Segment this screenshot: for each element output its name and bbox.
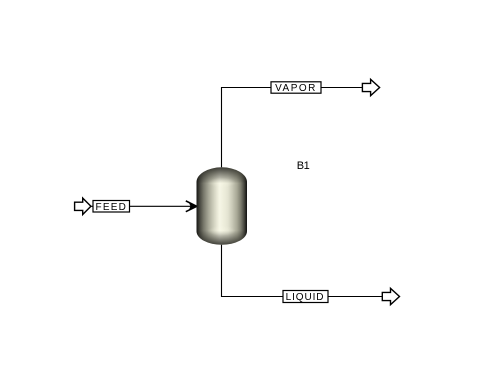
wire vapor line bbox=[222, 88, 272, 169]
stream label FEED bbox=[93, 201, 130, 214]
svg-text:B1: B1 bbox=[297, 160, 310, 172]
wire liquid line 2 bbox=[328, 296, 382, 298]
vapor outlet arrow bbox=[362, 79, 379, 95]
stream label VAPOR bbox=[271, 82, 321, 94]
wire liquid line bbox=[222, 244, 284, 297]
svg-text:VAPOR: VAPOR bbox=[275, 83, 317, 94]
wire feed stub bbox=[91, 205, 93, 207]
svg-text:LIQUID: LIQUID bbox=[286, 292, 325, 303]
svg-text:FEED: FEED bbox=[96, 202, 127, 213]
wire feed line bbox=[130, 205, 196, 207]
feed inlet arrow bbox=[75, 198, 91, 214]
liquid outlet arrow bbox=[382, 288, 399, 304]
wire vapor line 2 bbox=[321, 87, 362, 89]
flash drum B1 bbox=[197, 167, 248, 245]
stream label LIQUID bbox=[283, 291, 328, 304]
arrowhead into vessel bbox=[186, 201, 197, 212]
